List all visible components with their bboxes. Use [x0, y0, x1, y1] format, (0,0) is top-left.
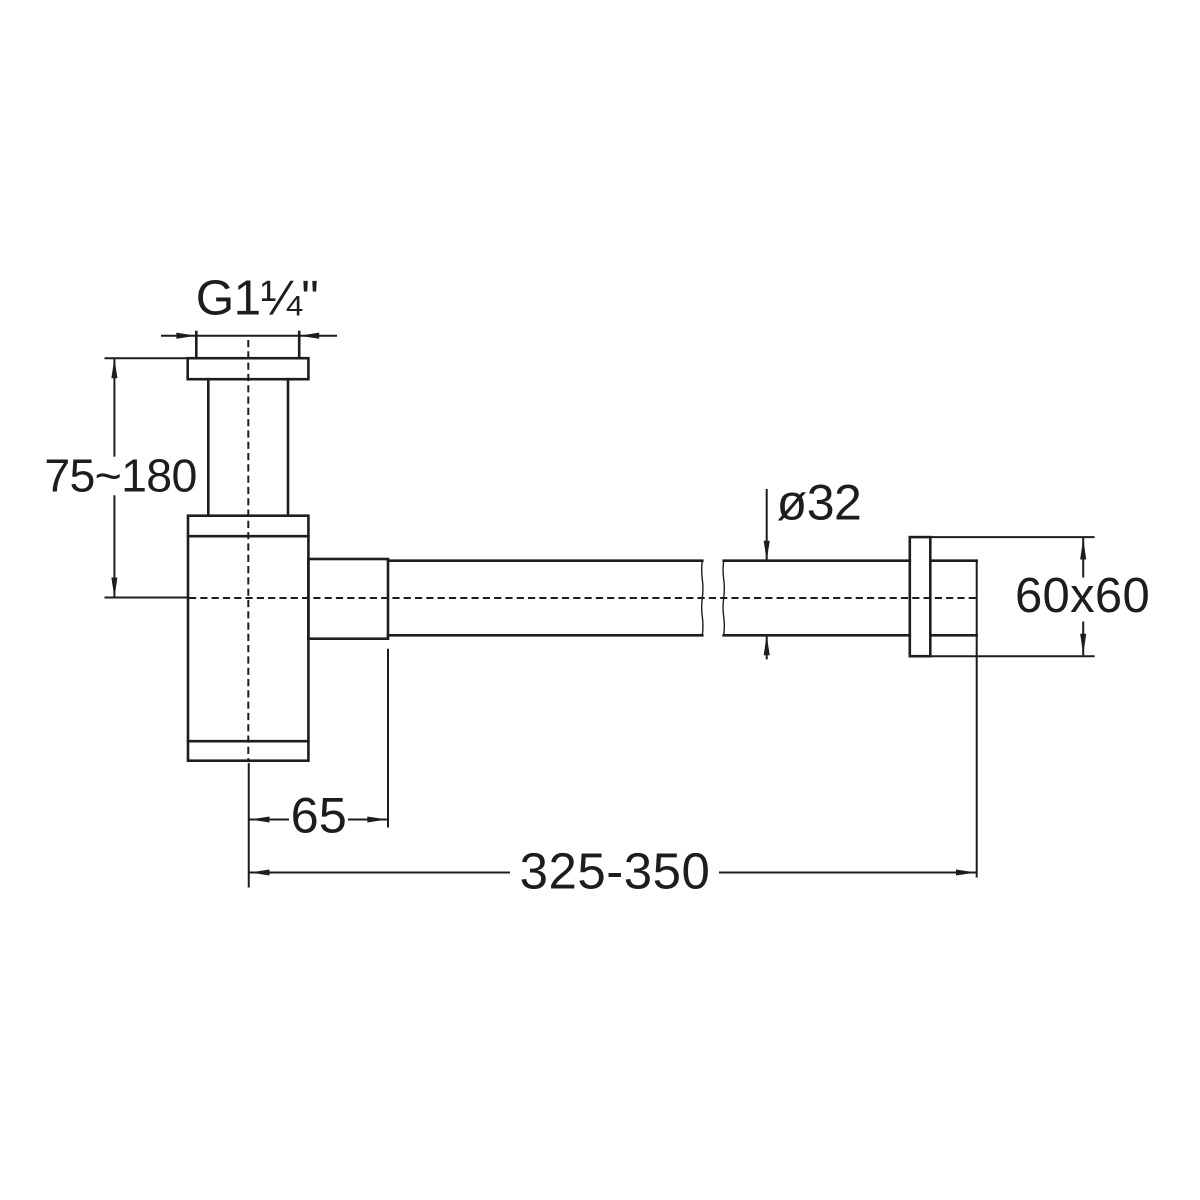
dimension 60x60: bottom extension line — [930, 655, 1094, 657]
label 65 — [291, 787, 347, 844]
vertical inlet tube — [208, 379, 288, 516]
svg-text:60x60: 60x60 — [1015, 569, 1150, 623]
dimension G1 1/4" arrow right (points left) — [299, 333, 319, 339]
label o32 — [777, 475, 862, 531]
dimension 325-350 arrow left — [250, 869, 270, 875]
dimension 325-350: dimension line right segment — [719, 872, 977, 874]
svg-text:ø32: ø32 — [777, 475, 862, 531]
dimension 65 arrow left — [250, 816, 270, 822]
svg-text:65: 65 — [291, 787, 347, 844]
dimension G1 1/4" top: dimension line — [161, 335, 337, 337]
label G1 1/4" — [196, 271, 319, 326]
label 60x60 — [1015, 569, 1150, 623]
label 325-350 — [520, 843, 711, 900]
dimension 75~180: bottom extension line — [105, 597, 189, 599]
vertical centerline (dashed) of trap — [247, 340, 249, 760]
dimension 65: right extension line — [387, 649, 389, 828]
dimension 60x60: dimension line upper segment — [1082, 538, 1084, 578]
pipe break line right — [723, 561, 724, 636]
dimension 325-350: right extension line — [976, 561, 978, 878]
dimension o32: lower dimension line — [766, 635, 768, 659]
dimension 60x60: top extension line — [930, 536, 1094, 538]
horizontal centerline (dashed) of outlet pipe — [189, 597, 980, 599]
dimension 75~180 arrow up — [111, 358, 117, 378]
dimension 325-350: dimension line left segment — [249, 872, 510, 874]
svg-text:G1¼": G1¼" — [196, 271, 319, 326]
label 75~180 — [44, 450, 196, 502]
dimension 75~180: dimension line lower segment — [113, 495, 115, 597]
dimension o32: upper dimension line — [766, 489, 768, 561]
dimension 65 arrow right — [367, 816, 387, 822]
bottle trap body — [188, 516, 308, 761]
dimension 75~180: top extension line — [105, 357, 188, 359]
svg-text:325-350: 325-350 — [520, 843, 711, 900]
cap nut (top G1 1/4 connector) — [196, 332, 299, 358]
dimension 65: center extension line — [248, 763, 250, 888]
pipe break line left — [702, 561, 703, 636]
dimension 60x60: dimension line lower segment — [1082, 622, 1084, 656]
dimension 75~180 arrow down — [111, 578, 117, 598]
dimension 65: dimension line right segment — [348, 819, 388, 821]
flange under cap nut — [188, 358, 309, 379]
wall pipe stub — [930, 561, 976, 636]
dimension 60x60 arrow up — [1080, 539, 1086, 560]
dimension G1 1/4" arrow left (points right) — [176, 333, 196, 339]
dimension o32 arrow up — [764, 635, 770, 655]
outlet pipe left segment — [388, 561, 702, 636]
outlet sleeve nut — [308, 559, 388, 639]
wall flange — [910, 537, 931, 656]
dimension 65: dimension line left segment — [249, 819, 289, 821]
dimension 60x60 arrow down — [1080, 634, 1086, 655]
svg-text:75~180: 75~180 — [44, 450, 196, 502]
dimension 325-350 arrow right — [956, 869, 976, 875]
dimension o32 arrow down — [764, 541, 770, 561]
outlet pipe right segment — [724, 561, 910, 636]
dimension 75~180: dimension line upper segment — [113, 358, 115, 456]
